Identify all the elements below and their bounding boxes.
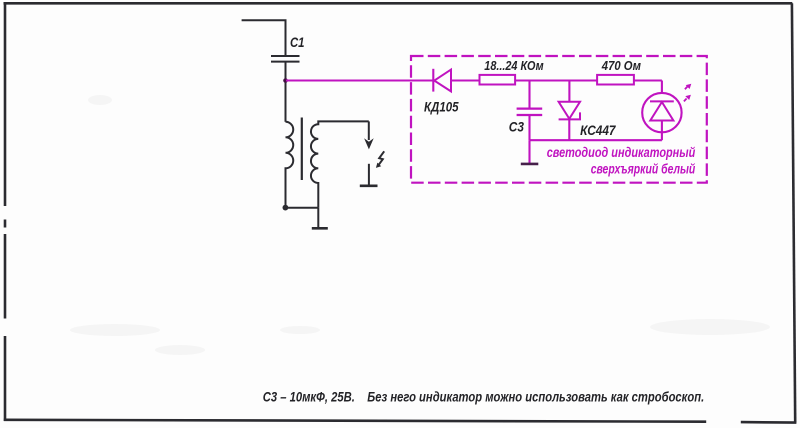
capacitor C3 branch wire [528, 81, 530, 108]
frame top [4, 2, 793, 5]
wire secondary to spark arrow [368, 121, 370, 140]
resistor R2 [597, 75, 634, 85]
dashed box indicator unit [411, 56, 707, 183]
wire to ground stub [528, 140, 530, 163]
spark arrow head [364, 138, 374, 149]
spark electrode [368, 164, 370, 185]
faint scan smudges [70, 95, 770, 355]
wire zener to bottom rail [568, 119, 570, 140]
svg-text:С3: С3 [509, 118, 524, 134]
wire LED to bottom rail [661, 121, 663, 141]
LED emission arrow upper [685, 86, 688, 89]
zener VD2 branch wire [568, 81, 570, 102]
wire C3 to bottom rail [528, 115, 530, 140]
wire C1 to junction [285, 62, 287, 122]
node junction windings bottom [283, 205, 289, 211]
spark lightning symbol [379, 151, 384, 164]
svg-text:С3 – 10мкФ, 25В. Без него и: С3 – 10мкФ, 25В. Без него индикатор можн… [263, 390, 704, 405]
svg-text:сверхъяркий белый: сверхъяркий белый [591, 161, 696, 176]
transformer T1 primary winding [286, 122, 294, 206]
capacitor C3 plates [517, 109, 543, 115]
svg-text:470 Ом: 470 Ом [601, 58, 641, 73]
svg-text:С1: С1 [290, 34, 305, 50]
wire transformer bottom [285, 168, 319, 227]
ground electrode bottom [312, 227, 328, 230]
LED HL1 circle [642, 93, 681, 132]
frame right [792, 3, 795, 422]
zener VD2 cathode bar with tick [559, 112, 580, 119]
wire C1 junction to diode [286, 79, 433, 81]
frame bottom [4, 420, 797, 423]
transformer T1 secondary winding [311, 121, 369, 207]
bottom rail wire [530, 139, 662, 141]
svg-text:18...24 КОм: 18...24 КОм [484, 58, 544, 73]
wire top feed [242, 20, 286, 55]
svg-text:светодиод индикаторный: светодиод индикаторный [547, 145, 696, 160]
resistor R1 [480, 75, 516, 85]
transformer T1 core [301, 118, 303, 181]
LED emission arrow lower [684, 99, 687, 102]
LED HL1 triangle [650, 102, 673, 121]
svg-text:КД105: КД105 [424, 98, 459, 114]
diode VD1 cathode bar [432, 69, 434, 92]
frame left [4, 2, 7, 421]
wire R2 to LED [634, 81, 662, 93]
zener VD2 triangle [559, 102, 580, 119]
ground electrode C3 [521, 163, 539, 166]
wire diode to R1 [451, 79, 480, 81]
node junction C1/output [283, 78, 288, 83]
svg-text:КС447: КС447 [580, 122, 616, 138]
wire R1 to R2 [515, 79, 597, 81]
diode VD1 triangle [434, 70, 451, 92]
capacitor C1 [271, 56, 300, 62]
LED HL1 cathode bar [650, 100, 674, 102]
